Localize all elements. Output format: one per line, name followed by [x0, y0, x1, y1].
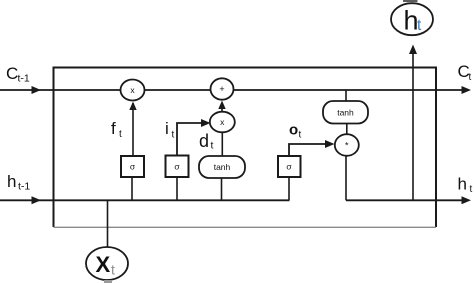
wire: i_t path from S2 up and right into U3 with arrowhead: [177, 119, 211, 156]
wire: X_t riser from circle to h line: [107, 200, 109, 248]
wire: vertical h_t line up to output circle with arrowhead: [409, 45, 417, 201]
node label f_t: [111, 119, 122, 140]
wire: T1 top to U3 bottom: [221, 132, 223, 156]
sigma gate box S3 (output gate): [278, 156, 301, 177]
wire: S2 drop to h line: [176, 177, 178, 200]
input node circle X_t: [86, 247, 128, 280]
node label C_t: [458, 62, 472, 83]
multiply circle U3 (input gate product): [210, 112, 235, 133]
node label i_t: [165, 119, 175, 141]
wire: U4 drop to h output line: [345, 156, 347, 201]
wire: h_t output line with arrowhead: [346, 196, 471, 204]
multiply circle U4 (output gate product): [335, 134, 359, 156]
svg-text:t: t: [299, 130, 302, 141]
svg-text:σ: σ: [130, 162, 136, 172]
wire: C(t-1) input line with arrowhead: [0, 86, 121, 94]
tanh box T2 (cell output squash): [323, 101, 368, 124]
svg-text:f: f: [111, 119, 116, 138]
wire: T1 drop to h line: [221, 178, 223, 200]
svg-text:t: t: [111, 262, 115, 278]
node label h(t-1): [7, 172, 30, 193]
svg-text:+: +: [219, 84, 224, 94]
wire: T2 bottom into U4 top: [346, 124, 348, 135]
svg-text:x: x: [220, 117, 225, 127]
LSTM cell boundary box: [54, 68, 437, 228]
svg-text:*: *: [345, 141, 349, 151]
wire: f_t arrow from S1 up into U1: [129, 102, 136, 157]
wire: arrow from U3 up into U2: [218, 101, 225, 113]
sigma gate box S2 (input gate): [166, 156, 189, 178]
svg-text:σ: σ: [174, 162, 180, 172]
node label C(t-1): [6, 64, 30, 85]
sigma gate box S1 (forget gate): [121, 156, 144, 177]
node label o_t: [289, 122, 302, 141]
svg-text:t: t: [469, 72, 472, 83]
wire: C line down into T2 top: [345, 90, 347, 101]
gray crop mark below X_t circle: [104, 280, 112, 283]
svg-text:i: i: [165, 119, 169, 138]
svg-text:X: X: [96, 252, 111, 277]
node label h_t (right edge): [458, 175, 473, 196]
node label d_t: [199, 131, 214, 152]
multiply circle U1 (forget gate product): [121, 80, 145, 101]
tanh box T1 (candidate): [199, 156, 245, 178]
svg-text:h: h: [458, 175, 467, 194]
svg-text:h: h: [7, 172, 16, 191]
wire: h(t-1) input line with arrowhead: [0, 196, 290, 204]
svg-text:t: t: [417, 17, 422, 34]
svg-text:σ: σ: [286, 162, 292, 172]
wire: S3 drop to h line: [288, 177, 290, 200]
svg-text:o: o: [289, 122, 298, 139]
wire: C_t output line with arrowhead: [234, 86, 472, 94]
wire: C line between multiply and add circles: [144, 89, 211, 91]
svg-text:t-1: t-1: [18, 181, 30, 193]
svg-text:t: t: [470, 184, 473, 195]
wire: o_t path from S3 up and right into U4 with arrowhead: [289, 140, 335, 156]
svg-text:d: d: [199, 131, 209, 151]
svg-text:t: t: [119, 129, 122, 140]
svg-text:C: C: [6, 64, 18, 83]
svg-text:t-1: t-1: [18, 73, 30, 85]
add circle U2 (cell state sum): [211, 78, 234, 99]
svg-text:t: t: [172, 130, 175, 141]
svg-text:t: t: [211, 140, 214, 152]
gray crop mark above h_t circle: [403, 0, 418, 2]
output node circle h_t: [391, 3, 433, 35]
svg-text:tanh: tanh: [214, 162, 231, 172]
svg-text:tanh: tanh: [337, 108, 354, 118]
wire: S1 drop to h line: [131, 177, 133, 200]
